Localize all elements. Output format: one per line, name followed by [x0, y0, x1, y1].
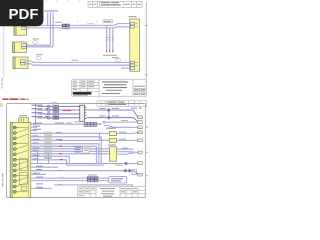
PDF badge — [0, 0, 43, 26]
right edge pin P1 — [138, 116, 142, 119]
sheet2 margin vertical text — [2, 173, 3, 187]
svg-text:PDF: PDF — [9, 6, 39, 23]
wire out X2 row1 to pin P1 — [86, 108, 137, 118]
red wire marks — [58, 140, 63, 186]
sheet 2 red header text — [2, 98, 29, 100]
bus wire bottom of staircase — [31, 150, 142, 166]
red annotation on bundle — [63, 110, 71, 111]
red mark right — [139, 108, 141, 109]
bundle labels below — [55, 122, 72, 123]
relay K1 (small yellow box) — [106, 128, 142, 136]
relay K2 (small yellow box) — [109, 138, 142, 142]
inline connector pair on bundle — [53, 105, 59, 119]
signature bar sheet1 — [73, 92, 92, 94]
bulkhead connector X2 — [80, 105, 87, 121]
sheet1 margin vertical text — [1, 78, 4, 89]
wire pair C (J3 to U1 bottom pins) — [25, 60, 130, 68]
label cluster blue — [75, 146, 90, 153]
wires r5-r9 ICU to M1 — [31, 146, 110, 165]
blue square mark — [132, 170, 137, 175]
ECU U1 (sheet1 right block) — [129, 16, 140, 71]
wire y184 corner into title block — [36, 183, 132, 186]
splice S1 (twisted pair circle near J2) — [33, 38, 40, 44]
connector J1 (sheet1 left, under badge) — [14, 24, 27, 35]
connector J3 (sheet1 left bottom) — [13, 57, 28, 69]
sheet2 border ticks — [30, 102, 80, 104]
ICU internal wiring — [16, 128, 28, 192]
wire drops (3 vertical with red terminals) — [103, 25, 117, 55]
margin marker — [0, 104, 2, 107]
connector J2 (sheet1 left middle) — [13, 42, 27, 53]
sheet 2 border frame — [7, 104, 149, 198]
ICU pin column — [13, 126, 16, 193]
sheet 1 border frame — [4, 0, 148, 96]
sheet 1 revision table — [88, 1, 142, 7]
wire out X2 row2 to pin P2row — [86, 108, 137, 122]
sheet 1 title block — [72, 80, 146, 96]
wire pair A (J1 to U1 top pins) — [26, 24, 130, 28]
wire pair B (J2 risers) — [26, 45, 53, 47]
wire short y167 — [31, 166, 58, 168]
harness bundle (4 wires) — [32, 105, 80, 118]
inline connector X1 on wire pair A — [55, 22, 94, 29]
ICU short exits with labels — [31, 121, 101, 130]
right edge pin P2 — [103, 120, 142, 124]
sheet 2 title block — [78, 187, 146, 198]
junction diamonds on X2 outputs — [107, 108, 110, 119]
splice S3 (circle near U1 bottom) — [112, 57, 121, 62]
ICU row labels — [33, 135, 40, 159]
wire short y188 — [31, 187, 52, 189]
sheet 2 revision table — [97, 101, 146, 106]
feeder wire from top border — [31, 104, 36, 124]
splice circles on bundle — [47, 105, 50, 119]
ICU top attachment connector — [19, 115, 29, 122]
wire r4 staircase — [31, 142, 99, 163]
wire link K1-K2 — [99, 133, 101, 140]
wire y170 with diamonds to P8 — [31, 169, 142, 176]
wire short y174 — [31, 173, 46, 175]
net label box N1 — [103, 20, 112, 23]
wire pair y178/180 with inline connector — [31, 174, 109, 182]
wire r1 ICU to K1 — [31, 132, 110, 135]
wire r2 staircase — [31, 135, 101, 163]
ICU block (big left connector sheet2) — [10, 122, 31, 197]
splice S2 (circle on pair C left) — [36, 54, 43, 60]
module M1 (tall yellow block) — [108, 144, 142, 161]
right edge pin P3 — [104, 125, 142, 129]
wire r3 ICU to K2 — [31, 139, 110, 142]
callout box CO — [109, 177, 127, 183]
node risers to net label (trio) — [44, 10, 58, 46]
